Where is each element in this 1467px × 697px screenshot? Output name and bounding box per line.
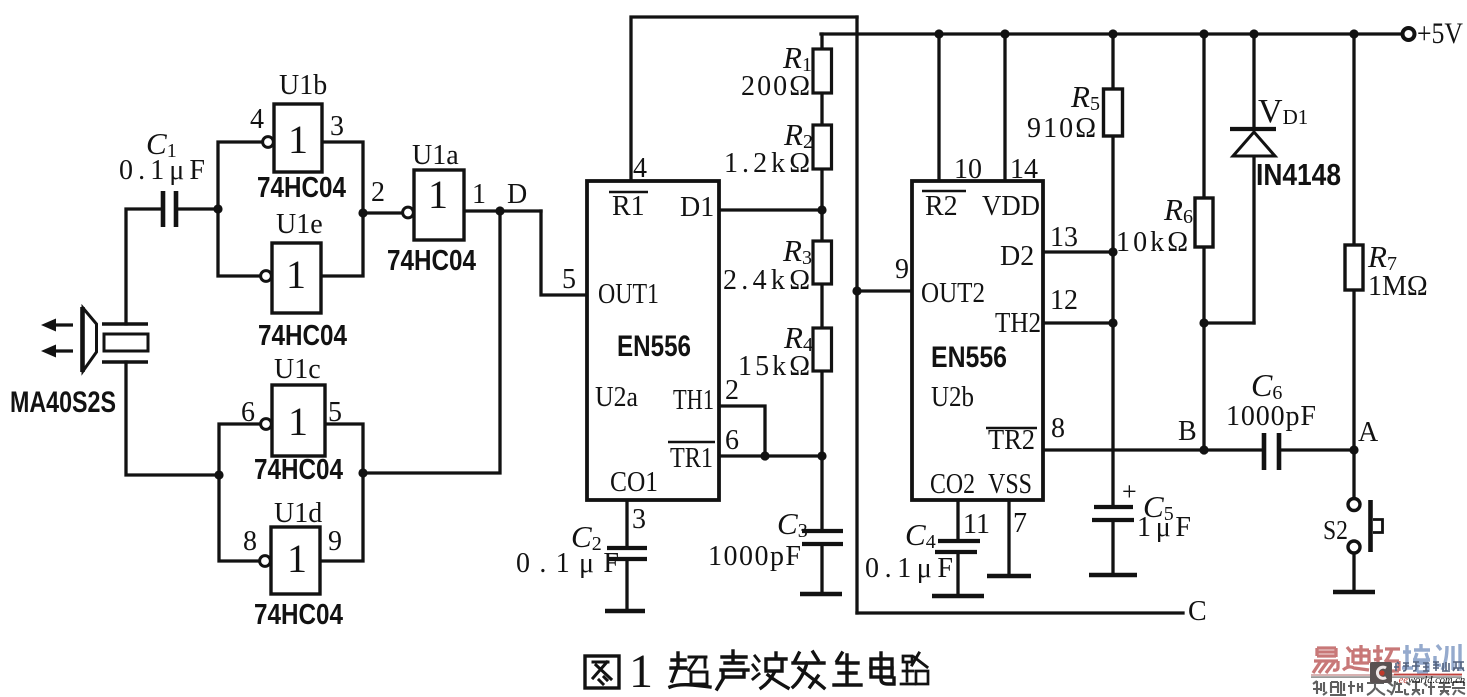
svg-text:1000pF: 1000pF (1226, 401, 1316, 432)
svg-text:U1a: U1a (412, 140, 459, 171)
node OUT2 column junction (852, 286, 861, 295)
svg-text:D: D (507, 179, 527, 210)
node R6/VD1 junction (1199, 318, 1208, 327)
svg-text:74HC04: 74HC04 (254, 454, 343, 486)
transducer MA40S2S (41, 307, 148, 372)
wire R6 to VD1 link (1204, 321, 1254, 324)
wire CO2 pin 11 to C4 (956, 500, 959, 594)
svg-text:11: 11 (963, 509, 990, 540)
svg-text:1: 1 (286, 252, 306, 297)
svg-text:1000pF: 1000pF (708, 541, 801, 572)
svg-text:1: 1 (288, 117, 308, 162)
svg-text:1MΩ: 1MΩ (1368, 271, 1428, 302)
IC U2a EN556 body (587, 181, 719, 500)
node TH2/R5 junction (1108, 318, 1117, 327)
node U1cd output junction (358, 468, 367, 477)
svg-text:3: 3 (632, 504, 646, 535)
diode VD1 (1230, 129, 1276, 156)
inverter U1a body (403, 170, 464, 240)
watermark logo red title (1313, 645, 1400, 673)
wire U1b/U1e outputs join (321, 142, 363, 276)
svg-text:1: 1 (288, 399, 308, 444)
watermark gray slogan row (1313, 681, 1465, 695)
svg-text:S2: S2 (1323, 515, 1348, 545)
svg-text:CO2: CO2 (930, 469, 975, 500)
svg-text:TH2: TH2 (995, 308, 1041, 339)
svg-text:8: 8 (1051, 413, 1065, 444)
resistor R2 (813, 125, 832, 169)
wire OUT1 pin 5 stub from D node (541, 211, 587, 295)
label TR2bar (986, 425, 1037, 456)
svg-text:10kΩ: 10kΩ (1116, 227, 1188, 258)
label R1bar U2a (609, 191, 648, 222)
svg-text:VSS: VSS (988, 469, 1032, 500)
wire C1 left lead to transducer (126, 209, 161, 324)
wire TR1 pin 6 (719, 454, 822, 457)
svg-text:200Ω: 200Ω (741, 71, 810, 102)
capacitor C3 (802, 531, 843, 544)
wire R5 branch (1111, 34, 1114, 506)
svg-text:R2: R2 (925, 191, 958, 222)
svg-text:5: 5 (328, 397, 342, 428)
node B junction (1199, 445, 1208, 454)
inverter U1c body (261, 385, 325, 456)
svg-text:2: 2 (725, 375, 739, 406)
svg-text:13: 13 (1050, 222, 1078, 253)
ground VSS pin7 (987, 574, 1031, 579)
wire U2b pin 10 (937, 34, 940, 181)
svg-text:74HC04: 74HC04 (254, 599, 343, 631)
wire VD1 leads (1252, 34, 1255, 323)
node rail VD1 (1249, 29, 1258, 38)
wire R6 branch (1202, 34, 1205, 450)
wire R7 branch (1352, 34, 1355, 450)
ground C3 (800, 592, 842, 597)
wire C3 lower lead (820, 546, 823, 592)
svg-text:D2: D2 (1000, 241, 1034, 272)
wire D2 pin 13 (1043, 250, 1113, 253)
svg-text:1: 1 (629, 645, 653, 697)
svg-text:14: 14 (1010, 154, 1038, 185)
svg-text:2: 2 (371, 177, 385, 208)
svg-text:1μF: 1μF (1137, 512, 1191, 543)
wire +5V rail (821, 32, 1402, 35)
svg-text:2.4kΩ: 2.4kΩ (723, 265, 810, 296)
svg-text:10: 10 (954, 154, 982, 185)
svg-text:U2a: U2a (595, 382, 639, 413)
node TR1/divider junction (817, 451, 826, 460)
svg-text:B: B (1178, 416, 1197, 447)
svg-text:R7: R7 (1367, 239, 1397, 275)
svg-text:0.1μF: 0.1μF (865, 553, 953, 584)
svg-text:TH1: TH1 (673, 385, 714, 416)
svg-text:8: 8 (243, 526, 257, 557)
node rail pin14 (1000, 29, 1009, 38)
svg-text:D1: D1 (680, 192, 714, 223)
wire VSS pin 7 (1007, 500, 1010, 574)
svg-text:OUT1: OUT1 (598, 279, 659, 310)
svg-text:1: 1 (287, 536, 307, 581)
switch S2 pushbutton (1348, 499, 1383, 554)
node A junction (1349, 445, 1358, 454)
svg-text:7: 7 (1013, 508, 1027, 539)
node TH1/TR1 junction (760, 451, 769, 460)
svg-text:.eeworld.com.cn: .eeworld.com.cn (1396, 675, 1465, 686)
capacitor C1 (163, 191, 176, 227)
caption char bo (753, 653, 788, 688)
wire TH2 pin 12 (1043, 321, 1113, 324)
inverter U1b body (263, 104, 322, 172)
wire CO1 pin 3 to C2 (625, 500, 628, 609)
inverter U1e body (261, 243, 321, 313)
svg-text:C3: C3 (777, 506, 808, 542)
label TR1bar (668, 442, 715, 474)
terminal +5V (1403, 28, 1415, 40)
svg-text:1.2kΩ: 1.2kΩ (724, 148, 810, 179)
node rail R7 (1349, 29, 1358, 38)
capacitor C2 (607, 548, 647, 559)
wire C1 right lead to split node (178, 207, 218, 210)
node D junction (495, 206, 504, 215)
wire R1-R4 divider chain (820, 34, 823, 528)
svg-text:4: 4 (633, 153, 647, 184)
svg-text:C: C (1188, 596, 1207, 627)
ground C4 (932, 594, 984, 599)
svg-text:A: A (1358, 417, 1379, 448)
svg-text:VD1: VD1 (1258, 93, 1308, 130)
wire node D feedback down (363, 211, 500, 473)
svg-text:74HC04: 74HC04 (387, 245, 476, 277)
wire TH1 pin 2 (719, 406, 765, 456)
resistor R7 (1345, 245, 1363, 290)
node rail pin10 (934, 29, 943, 38)
wire split to U1b input (218, 142, 262, 209)
caption char dian (871, 653, 894, 684)
svg-text:R1: R1 (612, 191, 645, 222)
svg-text:74HC04: 74HC04 (257, 172, 346, 204)
wire U2b pin 14 VDD (1003, 34, 1006, 181)
caption figure title (585, 651, 928, 689)
resistor R4 (813, 328, 832, 371)
svg-text:IN4148: IN4148 (1256, 157, 1341, 192)
svg-text:15kΩ: 15kΩ (738, 351, 810, 382)
svg-text:9: 9 (895, 254, 909, 285)
node transducer/U1cd input junction (214, 470, 223, 479)
capacitor C6 (1264, 433, 1279, 470)
svg-text:74HC04: 74HC04 (258, 320, 347, 352)
svg-text:5: 5 (562, 264, 576, 295)
svg-text:U1c: U1c (274, 354, 321, 385)
caption char sheng (717, 651, 748, 689)
svg-text:U1b: U1b (279, 70, 327, 101)
ground S2 (1333, 590, 1375, 595)
wire node A to S2 and ground (1352, 450, 1355, 590)
svg-text:3: 3 (330, 111, 344, 142)
capacitor C4 (935, 541, 980, 552)
wire U1a output to node D (464, 209, 541, 212)
svg-text:C4: C4 (905, 517, 936, 553)
caption char tu (585, 656, 619, 688)
svg-text:R5: R5 (1070, 79, 1100, 115)
wire OUT2 stub pin 9 (857, 289, 912, 292)
svg-text:6: 6 (725, 425, 739, 456)
svg-text:C6: C6 (1251, 367, 1282, 404)
IC U2b EN556 body (912, 181, 1043, 500)
svg-text:VDD: VDD (982, 191, 1040, 222)
resistor R1 (813, 49, 832, 93)
svg-text:6: 6 (241, 397, 255, 428)
svg-text:U1e: U1e (276, 209, 323, 240)
svg-text:EN556: EN556 (617, 330, 691, 363)
capacitor C5 polarized (1092, 507, 1134, 520)
watermark logo square (1370, 662, 1392, 683)
svg-text:910Ω: 910Ω (1027, 113, 1096, 144)
node D2/R5 junction (1108, 247, 1117, 256)
svg-text:R6: R6 (1163, 192, 1193, 228)
label R2bar U2b (922, 191, 966, 222)
node divider D1 junction (817, 205, 826, 214)
wire U1c/U1d outputs join (320, 424, 363, 561)
resistor R3 (813, 241, 832, 284)
wire D1 pin to divider (719, 208, 822, 211)
svg-text:1: 1 (428, 172, 448, 217)
svg-text:TR2: TR2 (988, 425, 1035, 456)
watermark underline (1311, 674, 1462, 676)
svg-text:OUT2: OUT2 (921, 278, 985, 309)
ground C2 (605, 609, 645, 614)
wire C5 lower lead (1111, 522, 1114, 573)
svg-text:0.1μF: 0.1μF (516, 548, 619, 579)
svg-text:EN556: EN556 (931, 341, 1007, 374)
inverter U1d body (260, 527, 320, 594)
wire TR2 pin 8 to node B to C6 (1043, 448, 1262, 451)
node C1 split junction (213, 204, 222, 213)
svg-text:0.1μF: 0.1μF (119, 155, 205, 186)
wire node C bottom line (857, 611, 1183, 614)
caption char lu (901, 653, 928, 684)
node rail R6 (1199, 29, 1208, 38)
svg-text:MA40S2S: MA40S2S (10, 386, 116, 419)
svg-text:+: + (1122, 477, 1137, 506)
node rail R5 (1108, 29, 1117, 38)
wire C6 to node A (1282, 448, 1354, 451)
caption char fa (793, 652, 824, 688)
watermark small navy caption (1394, 662, 1464, 671)
wire vertical net to OUT2 and down to node C line (855, 17, 858, 613)
svg-text:12: 12 (1050, 285, 1078, 316)
caption char sheng2 (834, 653, 861, 685)
wire node 2 to U1a input (363, 211, 402, 214)
svg-text:U1d: U1d (274, 498, 322, 529)
ground C5 (1089, 573, 1137, 578)
svg-text:4: 4 (250, 104, 264, 135)
wire transducer bottom to U1c/U1d inputs (126, 362, 259, 561)
watermark red rule (1394, 674, 1462, 676)
svg-text:9: 9 (328, 526, 342, 557)
svg-text:TR1: TR1 (670, 443, 713, 474)
svg-text:+5V: +5V (1417, 17, 1463, 50)
svg-text:1: 1 (472, 179, 486, 210)
svg-text:R3: R3 (782, 233, 812, 269)
wire top reset line U2a pin4 to U2b OUT2 column (631, 17, 857, 181)
wire split to U1e input (218, 209, 262, 276)
svg-text:U2b: U2b (931, 382, 974, 413)
svg-text:CO1: CO1 (610, 467, 658, 498)
resistor R6 (1195, 198, 1213, 247)
caption char chao (670, 653, 710, 687)
resistor R5 (1104, 89, 1123, 136)
node 2 junction (358, 208, 367, 217)
